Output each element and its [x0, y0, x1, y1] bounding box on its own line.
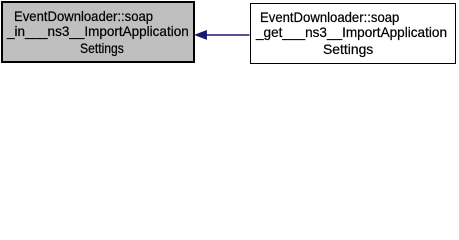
node N2 label line 1 [260, 11, 399, 25]
arrowhead pointing left at node N1 [195, 30, 207, 39]
node N1 label line 3 [80, 42, 124, 56]
node N2: EventDownloader::soap_get___ns3__ImportApplicationSettings (caller node, white fill) [250, 3, 457, 64]
node N2 label line 2 [256, 26, 447, 40]
wire: edge shaft [206, 34, 250, 36]
node N1 label line 1 [14, 10, 153, 24]
edge (midnightblue) from node N2 to node N1 [0, 0, 459, 67]
node N1: EventDownloader::soap_in___ns3__ImportApplicationSettings (current node, grey fill) [1, 1, 195, 63]
node N1 label line 2 [7, 25, 189, 39]
node N2 label line 3 [323, 43, 373, 57]
